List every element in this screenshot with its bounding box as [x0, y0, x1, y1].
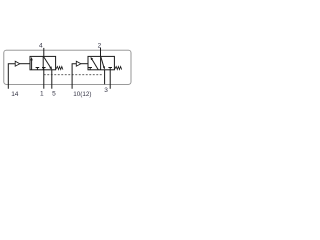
svg-text:5: 5: [52, 91, 56, 98]
svg-text:14: 14: [11, 91, 19, 98]
svg-text:2: 2: [98, 42, 102, 49]
svg-text:4: 4: [39, 42, 43, 49]
svg-text:10(12): 10(12): [73, 91, 91, 98]
svg-text:1: 1: [40, 91, 44, 98]
svg-text:3: 3: [104, 87, 108, 94]
